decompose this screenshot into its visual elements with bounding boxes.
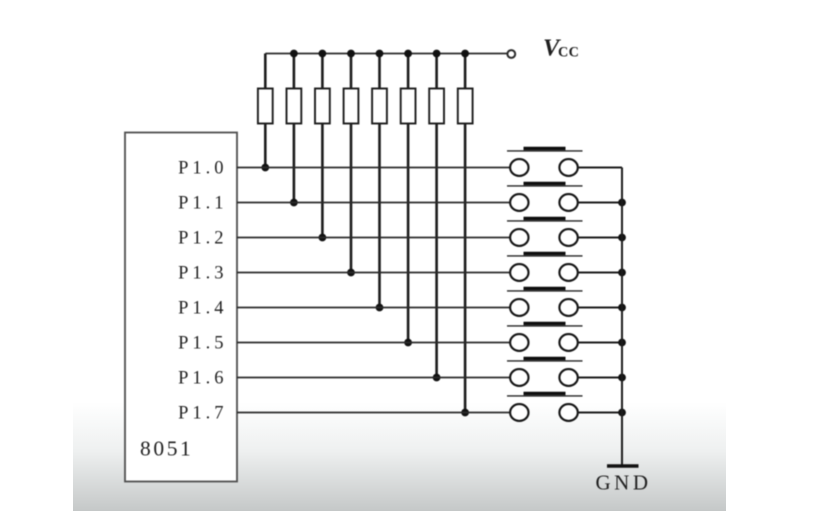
switch S8 contact line: [507, 395, 583, 397]
switch S5 right terminal: [559, 299, 577, 316]
resistor R6: [407, 54, 410, 89]
svg-text:P1.7: P1.7: [178, 404, 227, 424]
switch S3 contact line: [507, 220, 583, 222]
wire R3 to P1.2: [321, 124, 324, 238]
junction dot R5/P1.4: [376, 304, 384, 312]
svg-text:P1.6: P1.6: [178, 369, 227, 389]
switch S1 actuator bar: [524, 147, 566, 150]
wire P1.4: [237, 307, 510, 309]
wire R5 to P1.4: [378, 124, 381, 308]
switch S6 actuator bar: [524, 322, 566, 325]
wire P1.7: [237, 412, 510, 414]
junction dot S5/GND bus: [618, 304, 626, 312]
svg-text:8051: 8051: [140, 437, 193, 461]
switch S3 actuator bar: [524, 217, 566, 220]
switch S8 left terminal: [510, 404, 528, 421]
wire R6 to P1.5: [407, 124, 410, 343]
resistor R3: [321, 54, 324, 89]
switch S8 right terminal: [559, 404, 577, 421]
switch S4 left terminal: [510, 264, 528, 281]
svg-text:P1.1: P1.1: [178, 194, 227, 214]
wire P1.0: [237, 167, 510, 169]
wire R4 to P1.3: [350, 124, 353, 273]
VCC terminal open circle: [507, 50, 515, 58]
junction dot S8/GND bus: [618, 409, 626, 417]
resistor R8: [464, 54, 467, 89]
switch S5 contact line: [507, 290, 583, 292]
junction dot bus/R7: [433, 50, 441, 58]
switch S4 contact line: [507, 255, 583, 257]
junction dot R3/P1.2: [319, 234, 327, 242]
wire P1.2: [237, 237, 510, 239]
switch S7 contact line: [507, 360, 583, 362]
resistor R1: [264, 54, 267, 89]
junction dot bus/R2: [290, 50, 298, 58]
wire R2 to P1.1: [293, 124, 296, 203]
resistor R4: [350, 54, 353, 89]
VCC bus wire: [265, 53, 507, 55]
switch S5 actuator bar: [524, 287, 566, 290]
junction dot bus/R3: [319, 50, 327, 58]
switch S7 right terminal: [559, 369, 577, 386]
wire R7 to P1.6: [435, 124, 438, 378]
switch S4 actuator bar: [524, 252, 566, 255]
junction dot S6/GND bus: [618, 339, 626, 347]
IC U1 8051 box: [125, 133, 237, 482]
junction dot S4/GND bus: [618, 269, 626, 277]
junction dot S7/GND bus: [618, 374, 626, 382]
switch S2 left terminal: [510, 194, 528, 211]
switch S6 right terminal: [559, 334, 577, 351]
wire P1.5: [237, 342, 510, 344]
switch S6 left terminal: [510, 334, 528, 351]
wire S6 to GND bus: [578, 342, 622, 344]
junction dot R7/P1.6: [433, 374, 441, 382]
junction dot S3/GND bus: [618, 234, 626, 242]
switch S2 actuator bar: [524, 182, 566, 185]
wire P1.1: [237, 202, 510, 204]
junction dot R8/P1.7: [461, 409, 469, 417]
resistor R5: [378, 54, 381, 89]
svg-text:P1.2: P1.2: [178, 229, 227, 249]
switch S1 contact line: [507, 150, 583, 152]
wire S3 to GND bus: [578, 237, 622, 239]
junction dot bus/R6: [404, 50, 412, 58]
svg-text:GND: GND: [596, 471, 652, 495]
resistor R2: [293, 54, 296, 89]
wire S7 to GND bus: [578, 377, 622, 379]
wire S2 to GND bus: [578, 202, 622, 204]
switch S2 right terminal: [559, 194, 577, 211]
junction dot R1/P1.0: [261, 164, 269, 172]
junction dot bus/R4: [347, 50, 355, 58]
svg-text:P1.0: P1.0: [178, 159, 227, 179]
switch S1 left terminal: [510, 159, 528, 176]
junction dot R4/P1.3: [347, 269, 355, 277]
resistor R7: [435, 54, 438, 89]
wire S5 to GND bus: [578, 307, 622, 309]
GND symbol bar: [607, 464, 639, 467]
switch S7 left terminal: [510, 369, 528, 386]
svg-text:P1.3: P1.3: [178, 264, 227, 284]
junction dot R6/P1.5: [404, 339, 412, 347]
GND bus wire: [621, 168, 623, 467]
wire S1 to GND bus: [578, 167, 622, 169]
switch S3 left terminal: [510, 229, 528, 246]
svg-text:P1.5: P1.5: [178, 334, 227, 354]
switch S1 right terminal: [559, 159, 577, 176]
junction dot bus/R8: [461, 50, 469, 58]
switch S7 actuator bar: [524, 357, 566, 360]
wire P1.3: [237, 272, 510, 274]
junction dot S2/GND bus: [618, 199, 626, 207]
wire P1.6: [237, 377, 510, 379]
switch S8 actuator bar: [524, 392, 566, 395]
svg-text:P1.4: P1.4: [178, 299, 227, 319]
wire S4 to GND bus: [578, 272, 622, 274]
switch S6 contact line: [507, 325, 583, 327]
svg-text:CC: CC: [558, 45, 579, 61]
switch S3 right terminal: [559, 229, 577, 246]
wire S8 to GND bus: [578, 412, 622, 414]
wire R1 to P1.0: [264, 124, 267, 168]
wire R8 to P1.7: [464, 124, 467, 413]
switch S4 right terminal: [559, 264, 577, 281]
switch S2 contact line: [507, 185, 583, 187]
junction dot bus/R5: [376, 50, 384, 58]
switch S5 left terminal: [510, 299, 528, 316]
junction dot R2/P1.1: [290, 199, 298, 207]
